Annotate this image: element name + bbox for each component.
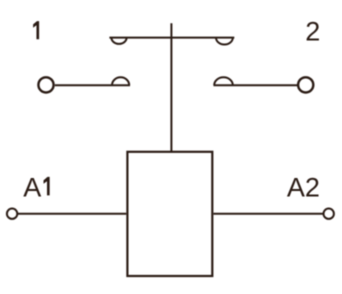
label A1 digit 1 <box>44 177 50 196</box>
coil K1 <box>127 152 212 276</box>
terminal circle A2 <box>324 209 334 219</box>
terminal circle pole 2 <box>298 77 313 92</box>
wire A1 <box>18 213 127 215</box>
fixed contact arc pole 1 <box>112 77 129 85</box>
contact bowl right (pole 2 bridge contact) <box>216 38 233 45</box>
terminal circle A1 <box>7 209 17 219</box>
wire A2 <box>214 213 324 215</box>
svg-text:A: A <box>23 172 41 202</box>
svg-text:A2: A2 <box>287 172 320 202</box>
wire pole 2 <box>214 84 298 86</box>
wire: moving contact bridge bar <box>109 37 234 39</box>
label 1 <box>33 21 39 39</box>
fixed contact arc pole 2 <box>214 77 233 85</box>
wire: actuator link from bridge to coil <box>170 23 172 152</box>
svg-text:2: 2 <box>305 16 320 46</box>
wire pole 1 <box>55 84 130 86</box>
contact bowl left (pole 1 bridge contact) <box>111 38 126 44</box>
terminal circle pole 1 <box>38 77 53 92</box>
